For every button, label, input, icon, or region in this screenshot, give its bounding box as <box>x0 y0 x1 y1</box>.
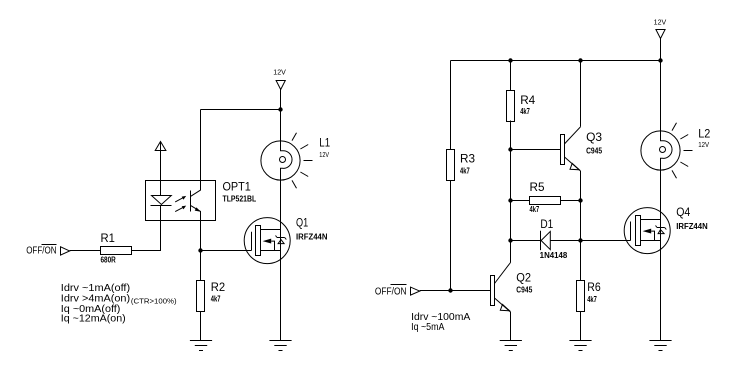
wire input to R1 <box>70 250 101 252</box>
svg-text:Q3: Q3 <box>586 130 602 144</box>
note text right <box>411 312 470 333</box>
resistor R1 <box>101 231 132 264</box>
svg-text:L1: L1 <box>319 136 330 150</box>
ground under R2 <box>190 341 212 351</box>
svg-text:680R: 680R <box>101 255 117 264</box>
svg-text:Idrv >4mA(on): Idrv >4mA(on) <box>61 294 130 305</box>
svg-text:IRFZ44N: IRFZ44N <box>296 233 328 242</box>
wire R3 to input node <box>450 181 452 292</box>
wire lamp L2 to Q4 drain and ground <box>660 170 662 340</box>
svg-text:R4: R4 <box>520 93 535 107</box>
transistor Q1 <box>244 216 328 264</box>
junction 12V right rail <box>658 58 662 62</box>
svg-text:R5: R5 <box>530 180 545 194</box>
wire D1 node down to Q2 collector <box>510 241 512 263</box>
svg-text:C945: C945 <box>516 286 533 295</box>
wire OPT1 collector to top <box>200 110 202 181</box>
transistor Q2 <box>491 263 533 313</box>
resistor R6 <box>577 280 601 312</box>
svg-text:4k7: 4k7 <box>520 107 530 116</box>
svg-text:OFF/ON: OFF/ON <box>26 246 56 257</box>
svg-text:Q4: Q4 <box>676 205 690 219</box>
svg-text:Iq ~12mA(on): Iq ~12mA(on) <box>61 313 126 324</box>
ground under R6 <box>569 341 591 351</box>
wire Q2 emitter to ground <box>510 312 512 341</box>
ground under left rail <box>269 341 291 351</box>
wire input to Q2 base <box>420 290 491 292</box>
node gate junction <box>198 248 202 252</box>
wire R5 node to D1 node <box>510 201 512 241</box>
junction R4 top <box>508 58 512 62</box>
junction R5 left <box>508 198 512 202</box>
wire lamp L1 to Q1 drain and ground rail <box>280 180 282 340</box>
junction base node <box>508 147 512 151</box>
junction R5 right <box>578 198 582 202</box>
svg-text:12V: 12V <box>319 152 329 159</box>
optocoupler OPT1 <box>146 180 257 221</box>
wire Q3 emitter to R5/D1 rail <box>580 171 582 241</box>
svg-text:Q2: Q2 <box>516 271 531 285</box>
svg-text:R1: R1 <box>101 231 116 245</box>
wire R4 top <box>510 61 512 91</box>
svg-text:Idrv ~1mA(off): Idrv ~1mA(off) <box>61 283 130 294</box>
wire junction to R2 <box>200 251 202 281</box>
wire D1 node to R6 <box>580 241 582 281</box>
supply 12V left <box>273 70 286 90</box>
junction D1 right <box>578 238 582 242</box>
junction D1 left <box>508 238 512 242</box>
diode D1 <box>540 217 568 260</box>
junction R3 bottom input <box>448 288 452 292</box>
svg-text:D1: D1 <box>540 217 553 231</box>
wire node to lamp L1 <box>280 110 282 141</box>
wire junction to Q1 gate <box>201 250 252 252</box>
lamp L2 <box>641 123 711 178</box>
svg-text:L2: L2 <box>698 126 710 140</box>
resistor R3 <box>447 150 476 181</box>
wire to D1 cathode <box>511 240 541 242</box>
lamp L1 <box>261 133 330 188</box>
supply arrow above OPT1 <box>155 142 166 181</box>
svg-text:12V: 12V <box>273 70 286 77</box>
wire R6 to ground <box>580 312 582 341</box>
ground under right rail <box>649 341 671 351</box>
wire Q3 collector to top <box>580 61 582 127</box>
svg-text:Iq ~5mA: Iq ~5mA <box>411 322 444 333</box>
resistor R2 <box>197 280 226 312</box>
input pin OFF/ON right <box>375 285 420 298</box>
svg-text:R6: R6 <box>587 280 601 294</box>
svg-text:4k7: 4k7 <box>587 295 597 304</box>
svg-text:R3: R3 <box>460 152 475 166</box>
wire top horizontal right <box>451 60 661 62</box>
junction Q3 collector top <box>578 58 582 62</box>
wire base node to Q3 base <box>511 149 561 151</box>
svg-text:1N4148: 1N4148 <box>540 251 568 260</box>
wire top horizontal left <box>201 109 281 111</box>
svg-text:(CTR>100%): (CTR>100%) <box>131 299 177 306</box>
wire 12V rail to lamp L2 <box>660 61 662 131</box>
input pin OFF/ON left <box>26 245 69 257</box>
svg-text:4k7: 4k7 <box>211 294 221 303</box>
wire R4 bottom to base node <box>510 121 512 150</box>
wire D1 anode to Q4 gate <box>550 240 630 242</box>
supply 12V right <box>654 19 667 38</box>
ground under Q2 <box>500 341 522 351</box>
wire R1 to LED cathode <box>131 221 160 251</box>
svg-text:Q1: Q1 <box>296 216 308 230</box>
resistor R4 <box>507 91 536 122</box>
svg-text:4k7: 4k7 <box>460 166 470 175</box>
wire R5 right <box>561 200 581 202</box>
transistor Q4 <box>624 205 708 254</box>
svg-text:12V: 12V <box>698 142 709 149</box>
note text left <box>61 283 177 324</box>
svg-text:OPT1: OPT1 <box>223 180 252 194</box>
svg-text:12V: 12V <box>654 19 667 26</box>
svg-text:R2: R2 <box>211 280 226 294</box>
wire 12V right to rail <box>660 39 662 61</box>
svg-text:IRFZ44N: IRFZ44N <box>676 222 708 231</box>
wire OPT1 emitter down <box>200 221 202 251</box>
wire to R5 <box>511 200 530 202</box>
wire top to R3 <box>450 61 452 150</box>
svg-text:OFF/ON: OFF/ON <box>375 286 407 297</box>
svg-text:4k7: 4k7 <box>530 205 540 214</box>
wire 12V left to node <box>280 90 282 110</box>
junction at 12V left rail <box>278 107 282 111</box>
svg-text:TLP521BL: TLP521BL <box>223 195 257 204</box>
transistor Q3 <box>561 127 603 171</box>
wire base node down to R5 node <box>510 150 512 201</box>
wire R2 to ground <box>200 312 202 341</box>
resistor R5 <box>530 180 561 214</box>
svg-text:C945: C945 <box>586 146 603 155</box>
